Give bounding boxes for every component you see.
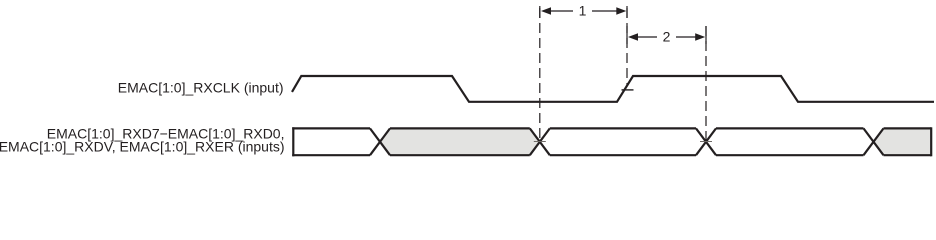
svg-text:1: 1 [579,3,587,19]
bus segment 1 top [292,127,370,129]
reference tick on RXCLK rising edge (arrow 2 start) [622,89,634,91]
bus segment 5 bottom [884,154,932,156]
arrow 1 left terminator tick [539,6,541,18]
dashed reference line 2 right (x=706) [705,26,707,142]
reference tick at crossing 3 center [700,141,712,143]
dashed reference line 2 left (x=627) [626,8,628,86]
bus segment 2 bottom [390,154,530,156]
bus segment 2 top [390,127,530,129]
arrow 2 right terminator tick [705,26,707,44]
bus crossing 1 [370,128,390,155]
dimension arrow 1 left segment [541,7,573,15]
bus shaded segment fill (between crossing 1 and crossing 2) [380,128,540,155]
EMAC RXCLK waveform [292,76,934,102]
bus left edge [292,127,294,156]
bus shaded segment fill (right end) [874,128,932,155]
bus crossing 3 [696,128,716,155]
arrow 1 right terminator tick [626,6,628,18]
dashed reference line 1 (x=540) [539,8,541,142]
svg-text:EMAC[1:0]_RXDV, EMAC[1:0]_RXER: EMAC[1:0]_RXDV, EMAC[1:0]_RXER (inputs) [0,138,285,154]
bus segment 5 top [884,127,932,129]
svg-text:EMAC[1:0]_RXCLK (input): EMAC[1:0]_RXCLK (input) [118,80,284,96]
bus segment 4 bottom [716,154,864,156]
arrow 2 left terminator tick [626,26,628,44]
dimension arrow 1 right segment [592,7,626,15]
bus crossing 4 [864,128,884,155]
bus segment 4 top [716,127,864,129]
svg-text:2: 2 [663,29,671,45]
reference tick at crossing 2 center [534,141,546,143]
bus segment 1 bottom [292,154,370,156]
bus segment 3 bottom [550,154,696,156]
bus right edge [930,127,932,156]
bus crossing 2 [530,128,550,155]
dimension arrow 2 left segment [628,33,657,41]
bus segment 3 top [550,127,696,129]
dimension arrow 2 right segment [676,33,705,41]
data bus waveform outline [292,127,931,156]
